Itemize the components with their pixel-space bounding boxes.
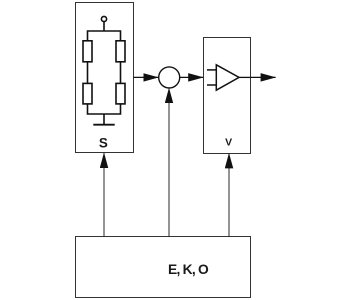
block V (amplifier box) <box>204 38 251 154</box>
summing junction <box>159 67 180 88</box>
wire (left branch mid) <box>87 62 89 84</box>
op-amp input wire (lower) <box>207 84 216 86</box>
block S (sensor box) <box>76 3 134 153</box>
wire (output arrow, with arrowhead) <box>251 76 276 78</box>
svg-text:V: V <box>225 137 232 149</box>
label S <box>99 135 108 150</box>
ground <box>93 124 114 126</box>
op-amp input wire (upper) <box>207 69 216 71</box>
wire (E,K,O to V box, with arrowhead) <box>228 153 230 236</box>
wire (bottom rail to ground) <box>103 114 105 125</box>
wire (bridge bottom rail) <box>88 104 121 114</box>
wire (E,K,O to S box, with arrowhead) <box>103 153 105 237</box>
wire (summing junction to V box, with arrowhead) <box>180 76 204 78</box>
block E,K,O (supply/compensation box) <box>76 237 251 298</box>
wire (E,K,O to summing junction, with arrowhead) <box>168 88 170 236</box>
label E, K, O <box>168 262 209 277</box>
wire (bridge top rail) <box>88 31 121 41</box>
resistor (bridge lower-right) <box>116 83 125 104</box>
svg-text:S: S <box>99 135 108 150</box>
op-amp (amplifier triangle) <box>216 65 239 90</box>
wire (S box to summing junction, with arrowhead) <box>134 76 159 78</box>
resistor (bridge upper-left) <box>83 41 92 62</box>
resistor (bridge lower-left) <box>83 83 92 104</box>
wire (right branch mid) <box>120 62 122 84</box>
terminal (supply node) <box>101 16 106 21</box>
resistor (bridge upper-right) <box>116 41 125 62</box>
svg-text:E, K, O: E, K, O <box>168 262 209 277</box>
label V <box>225 137 232 149</box>
wire (terminal to bridge top rail) <box>103 22 105 31</box>
wire (op-amp output to box edge) <box>239 76 251 78</box>
